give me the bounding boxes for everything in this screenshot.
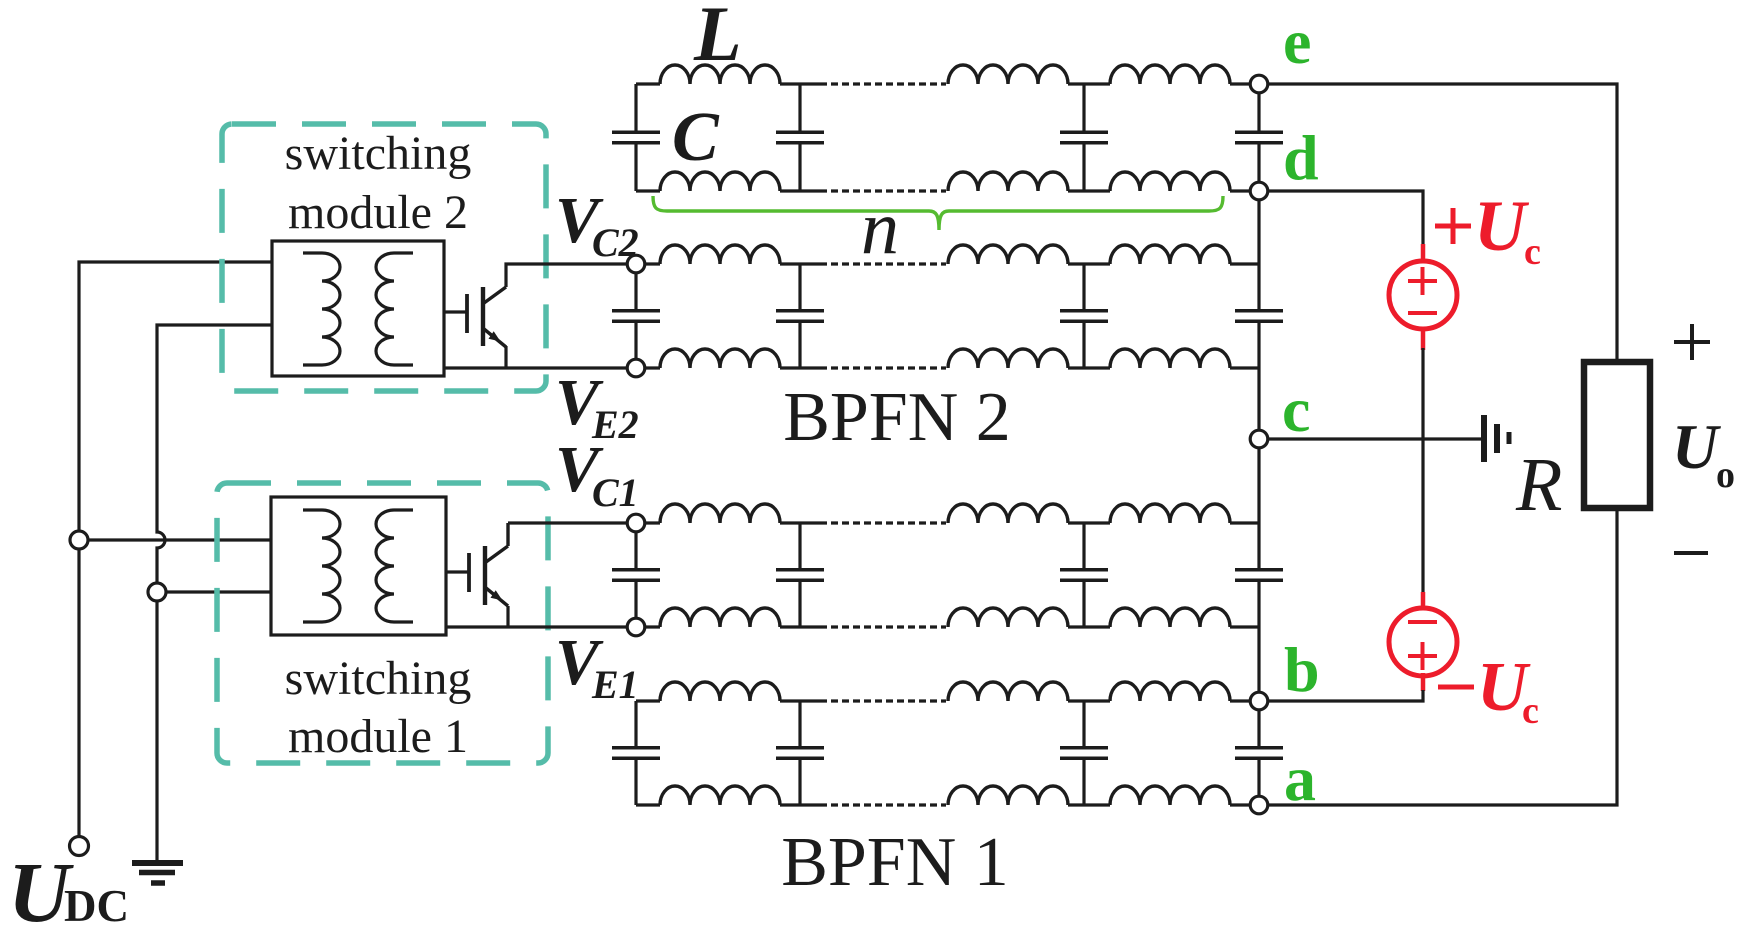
wire -Uc lead top (red): [1421, 592, 1426, 611]
inductor L BPFN2 line1 bottom rail section 3: [1110, 172, 1230, 191]
plus sign at load: [1674, 324, 1710, 360]
wire BPFN1 line1 shunt column B: [1082, 523, 1085, 568]
wire BPFN1 line2 bottom rail dashed continuation: [820, 803, 946, 806]
wire BPFN2 line2 left column: [634, 323, 637, 368]
transformer T2 primary winding: [303, 253, 340, 365]
wire BPFN1 line2 left column: [634, 760, 637, 805]
capacitor C bus pair2: [1235, 311, 1283, 321]
inductor L BPFN2 line1 top rail section 2: [948, 65, 1068, 84]
wire Q1 emitter return to V_E1: [446, 606, 636, 627]
wire Q1 collector to V_C1: [508, 521, 636, 524]
terminal V_E2 node: [627, 359, 645, 377]
capacitor C BPFN1 line2 shunt B: [1060, 748, 1108, 758]
wire BPFN2 line1 shunt column A: [798, 145, 801, 192]
wire BPFN1 line1 bottom rail segment: [1068, 625, 1110, 628]
svg-text:E1: E1: [591, 662, 639, 707]
wire BPFN1 line2 shunt column A: [798, 760, 801, 805]
node d: [1250, 182, 1268, 200]
wire BPFN2 line1 bottom rail segment: [1068, 189, 1110, 192]
capacitor C bus b-a: [1235, 748, 1283, 758]
svg-text:c: c: [1524, 231, 1541, 273]
wire BPFN1 line2 top rail dashed continuation: [820, 699, 946, 702]
wire Q2 emitter return to V_E2: [444, 346, 636, 368]
wire BPFN1 line2 left column: [634, 701, 637, 746]
wire BPFN2 line2 shunt column A: [798, 264, 801, 309]
inductor L BPFN1 line1 top rail section 3: [1110, 504, 1230, 523]
svg-text:o: o: [1716, 454, 1735, 496]
wire BPFN2 line2 shunt column B: [1082, 264, 1085, 309]
wire BPFN1 line2 top rail segment: [1068, 699, 1110, 702]
wire BPFN1 line1 top rail dashed continuation: [820, 521, 946, 524]
wire BPFN2 line2 top rail segment: [780, 262, 820, 265]
wire +Uc lead bottom (red): [1421, 327, 1426, 350]
wire BPFN2 line2 top rail dashed continuation: [820, 262, 946, 265]
resistor R load: [1584, 362, 1650, 508]
wire gate-drive bus with hop over crossing: [157, 325, 272, 860]
wire BPFN2 line1 top rail segment: [1068, 82, 1110, 85]
svg-text:C: C: [672, 99, 720, 176]
wire BPFN2 line2 bottom rail left segment: [636, 366, 660, 369]
wire module 1 upper input: [79, 538, 271, 541]
wire node d to +Uc: [1259, 191, 1423, 246]
transformer T2 secondary winding: [376, 253, 413, 365]
label V_E1: [555, 626, 639, 707]
wire bus c-b: [1257, 439, 1260, 701]
capacitor C BPFN2 line2 input end: [612, 311, 660, 321]
wire BPFN1 line1 top rail segment: [780, 521, 820, 524]
wire bus b-a: [1257, 701, 1260, 805]
svg-text:R: R: [1515, 443, 1562, 527]
label +U_c: [1435, 186, 1541, 273]
wire BPFN2 line1 left column: [634, 84, 637, 131]
wire BPFN2 line1 shunt column A: [798, 84, 801, 131]
wire BPFN2 line2 left column: [634, 264, 637, 309]
wire BPFN1 line2 top rail left segment: [636, 699, 660, 702]
svg-text:switching: switching: [285, 127, 472, 180]
wire between sources: [1421, 348, 1424, 594]
node junction on U_DC bus: [70, 531, 88, 549]
wire BPFN2 line2 top rail right segment: [1230, 262, 1259, 265]
svg-text:module 1: module 1: [288, 710, 468, 763]
wire BPFN2 line2 bottom rail segment: [780, 366, 820, 369]
wire BPFN1 line2 shunt column B: [1082, 701, 1085, 746]
capacitor C bus e-d: [1235, 132, 1283, 142]
capacitor C BPFN1 line1 shunt B: [1060, 570, 1108, 580]
label V_E2: [555, 366, 639, 447]
capacitor C BPFN1 line1 input end: [612, 570, 660, 580]
wire BPFN2 line1 top rail right segment: [1230, 82, 1259, 85]
terminal V_C1 node: [627, 514, 645, 532]
voltage source -Uc: [1389, 608, 1457, 676]
brace n (section count): [653, 196, 1223, 230]
wire BPFN1 line1 shunt column B: [1082, 582, 1085, 627]
label switching module 2: [285, 127, 472, 239]
wire BPFN2 line2 bottom rail segment: [1068, 366, 1110, 369]
switching module 2 dashed enclosure: [222, 124, 546, 391]
wire bus d-c: [1257, 191, 1260, 439]
node a: [1250, 796, 1268, 814]
wire BPFN1 line1 bottom rail right segment: [1230, 625, 1259, 628]
inductor L BPFN1 line1 top rail section 2: [948, 504, 1068, 523]
wire BPFN1 line1 left column: [634, 523, 637, 568]
svg-text:BPFN 2: BPFN 2: [783, 379, 1011, 456]
wire BPFN2 line2 shunt column B: [1082, 323, 1085, 368]
wire BPFN2 line2 top rail segment: [1068, 262, 1110, 265]
transformer T1 box: [271, 497, 446, 635]
inductor L BPFN2 line1 top rail section 1: [660, 65, 780, 84]
wire +Uc lead top (red): [1421, 244, 1426, 263]
inductor L BPFN1 line2 bottom rail section 1: [660, 786, 780, 805]
wire BPFN1 line2 bottom rail left segment: [636, 803, 660, 806]
capacitor C bus pair3: [1235, 570, 1283, 580]
wire BPFN1 line1 left column: [634, 582, 637, 627]
wire node e to load top: [1259, 84, 1617, 362]
inductor L BPFN2 line1 top rail section 3: [1110, 65, 1230, 84]
svg-text:c: c: [1282, 374, 1310, 445]
capacitor C BPFN2 line2 shunt B: [1060, 311, 1108, 321]
wire -Uc to node b: [1259, 690, 1423, 701]
inductor L BPFN1 line1 bottom rail section 1: [660, 608, 780, 627]
wire BPFN1 line1 top rail right segment: [1230, 521, 1259, 524]
wire node c to ground: [1259, 437, 1481, 440]
svg-text:d: d: [1283, 122, 1319, 193]
label V_C1: [555, 433, 639, 515]
inductor L BPFN1 line2 top rail section 3: [1110, 682, 1230, 701]
svg-text:e: e: [1283, 6, 1311, 77]
capacitor C BPFN2 line1 input end: [612, 132, 660, 142]
svg-text:a: a: [1284, 743, 1316, 814]
inductor L BPFN1 line1 bottom rail section 2: [948, 608, 1068, 627]
label switching module 1: [285, 652, 472, 763]
wire module 1 lower input: [157, 590, 271, 593]
svg-text:module 2: module 2: [288, 186, 468, 239]
inductor L BPFN2 line2 bottom rail section 1: [660, 349, 780, 368]
capacitor C BPFN2 line2 shunt A: [776, 311, 824, 321]
wire BPFN1 line2 shunt column A: [798, 701, 801, 746]
svg-text:c: c: [1522, 690, 1539, 732]
wire BPFN1 line2 bottom rail right segment: [1230, 803, 1259, 806]
wire BPFN1 line2 shunt column B: [1082, 760, 1085, 805]
inductor L BPFN1 line2 bottom rail section 2: [948, 786, 1068, 805]
wire BPFN1 line1 shunt column A: [798, 523, 801, 568]
wire BPFN1 line2 bottom rail segment: [780, 803, 820, 806]
wire BPFN2 line1 bottom rail segment: [780, 189, 820, 192]
capacitor C BPFN1 line1 shunt A: [776, 570, 824, 580]
wire BPFN2 line1 left column: [634, 145, 637, 192]
inductor L BPFN1 line1 top rail section 1: [660, 504, 780, 523]
wire load bottom to node a: [1259, 508, 1617, 805]
wire BPFN1 line1 bottom rail left segment: [636, 625, 660, 628]
terminal V_C2 node: [627, 255, 645, 273]
svg-text:n: n: [861, 186, 899, 270]
wire BPFN2 line1 bottom rail dashed continuation: [820, 189, 946, 192]
label U_o: [1672, 411, 1735, 496]
svg-text:BPFN 1: BPFN 1: [781, 824, 1009, 901]
transformer T1 primary winding: [303, 510, 340, 622]
svg-text:switching: switching: [285, 652, 472, 705]
wire BPFN1 line2 top rail right segment: [1230, 699, 1259, 702]
capacitor C BPFN1 line2 shunt A: [776, 748, 824, 758]
minus sign at load: [1674, 551, 1708, 555]
wire BPFN1 line2 top rail segment: [780, 699, 820, 702]
svg-text:U: U: [1474, 186, 1530, 266]
inductor L BPFN1 line1 bottom rail section 3: [1110, 608, 1230, 627]
inductor L BPFN2 line2 top rail section 3: [1110, 245, 1230, 264]
svg-text:U: U: [1672, 411, 1721, 482]
label -U_c: [1438, 649, 1539, 732]
transformer T2 box: [272, 241, 444, 376]
wire BPFN2 line1 bottom rail left segment: [636, 189, 660, 192]
capacitor C BPFN2 line1 shunt B: [1060, 132, 1108, 142]
capacitor C BPFN2 line1 shunt A: [776, 132, 824, 142]
wire IGBT Q2 gate lead: [444, 310, 466, 313]
capacitor C BPFN1 line2 input end: [612, 748, 660, 758]
wire BPFN2 line1 top rail dashed continuation: [820, 82, 946, 85]
polarity marks inside +Uc: [1408, 267, 1437, 313]
wire BPFN1 line1 top rail left segment: [636, 521, 660, 524]
svg-text:DC: DC: [64, 881, 129, 931]
svg-text:b: b: [1284, 634, 1320, 705]
switching module 1 dashed enclosure: [217, 483, 548, 763]
inductor L BPFN2 line2 bottom rail section 3: [1110, 349, 1230, 368]
inductor L BPFN2 line2 bottom rail section 2: [948, 349, 1068, 368]
inductor L BPFN2 line1 bottom rail section 2: [948, 172, 1068, 191]
label V_C2: [555, 184, 639, 265]
voltage source +Uc: [1389, 261, 1457, 329]
wire BPFN1 line1 top rail segment: [1068, 521, 1110, 524]
inductor L BPFN1 line2 top rail section 2: [948, 682, 1068, 701]
node junction on gate-drive bus: [148, 583, 166, 601]
inductor L BPFN2 line2 top rail section 2: [948, 245, 1068, 264]
wire BPFN1 line2 bottom rail segment: [1068, 803, 1110, 806]
terminal U_DC: [70, 837, 89, 856]
wire BPFN2 line1 shunt column B: [1082, 84, 1085, 131]
ground symbol (right, rotated): [1484, 415, 1509, 462]
wire bus e-d: [1257, 84, 1260, 191]
inductor L BPFN1 line2 bottom rail section 3: [1110, 786, 1230, 805]
wire BPFN2 line1 top rail left segment: [636, 82, 660, 85]
wire Q2 collector to V_C2: [506, 264, 636, 287]
inductor L BPFN1 line2 top rail section 1: [660, 682, 780, 701]
node e: [1250, 75, 1268, 93]
label U_DC: [8, 844, 129, 940]
wire IGBT Q1 gate lead: [446, 570, 468, 573]
transistor Q2 (IGBT): [467, 287, 506, 347]
wire -Uc lead bottom (red): [1421, 673, 1426, 691]
inductor L BPFN2 line1 bottom rail section 1: [660, 172, 780, 191]
node c: [1250, 430, 1268, 448]
terminal V_E1 node: [627, 618, 645, 636]
wire BPFN2 line1 bottom rail right segment: [1230, 189, 1259, 192]
polarity marks inside -Uc: [1408, 622, 1437, 670]
transistor Q1 (IGBT): [469, 523, 508, 606]
wire BPFN2 line2 shunt column A: [798, 323, 801, 368]
wire BPFN1 line1 bottom rail segment: [780, 625, 820, 628]
wire BPFN1 line1 shunt column A: [798, 582, 801, 627]
wire BPFN2 line1 top rail segment: [780, 82, 820, 85]
svg-text:C1: C1: [592, 470, 639, 515]
wire BPFN1 line1 bottom rail dashed continuation: [820, 625, 946, 628]
wire BPFN2 line1 shunt column B: [1082, 145, 1085, 192]
ground symbol (left): [132, 863, 183, 883]
wire BPFN2 line2 top rail left segment: [636, 262, 660, 265]
node b: [1250, 692, 1268, 710]
transformer T1 secondary winding: [376, 510, 413, 622]
svg-text:L: L: [693, 0, 742, 77]
wire U_DC positive bus: [79, 262, 272, 846]
wire BPFN2 line2 bottom rail right segment: [1230, 366, 1259, 369]
inductor L BPFN2 line2 top rail section 1: [660, 245, 780, 264]
wire BPFN2 line2 bottom rail dashed continuation: [820, 366, 946, 369]
